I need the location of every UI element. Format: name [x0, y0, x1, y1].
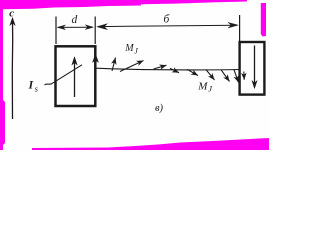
- wire moment arrow 7: [221, 70, 230, 82]
- wire moment arrow 4: [170, 68, 179, 72]
- wire Is pointer line: [45, 65, 83, 85]
- wire left magenta scan bar: [0, 9, 5, 150]
- wire b dimension line: [97, 22, 238, 29]
- wire right magenta scan strip: [261, 3, 266, 37]
- wire moment arrow 5: [187, 69, 198, 75]
- wire d left extension line: [55, 17, 57, 45]
- wire moment arrow 6: [206, 70, 215, 80]
- wire moment arrow 1: [112, 58, 116, 72]
- wire b right extension line: [239, 15, 241, 42]
- wire magnetization up arrow in left domain: [72, 57, 77, 97]
- wire d dimension double arrow: [57, 25, 93, 30]
- svg-text:J: J: [134, 46, 138, 55]
- svg-text:M: M: [197, 81, 208, 93]
- wire wall moment up arrow on right edge: [93, 54, 99, 63]
- wire bottom magenta scan band: [32, 138, 269, 150]
- wire moment arrow 8: [234, 70, 239, 83]
- resistor left domain rectangle: [56, 46, 96, 106]
- wire domain wall horizontal line: [96, 68, 241, 70]
- wire moment arrow 2: [120, 61, 144, 72]
- wire c-axis arrow: [10, 18, 15, 120]
- wire moment arrow 3: [154, 65, 167, 69]
- wire d right extension line: [94, 17, 96, 45]
- wire top magenta scan band: [0, 0, 247, 9]
- svg-text:в): в): [155, 103, 164, 114]
- wire magnetization down arrow in right domain: [252, 46, 257, 89]
- resistor right domain rectangle: [240, 42, 265, 95]
- svg-text:d: d: [72, 14, 78, 26]
- wire moment arrow 9 down at wall: [243, 72, 245, 80]
- svg-text:M: M: [124, 43, 134, 54]
- svg-text:c: c: [9, 7, 14, 19]
